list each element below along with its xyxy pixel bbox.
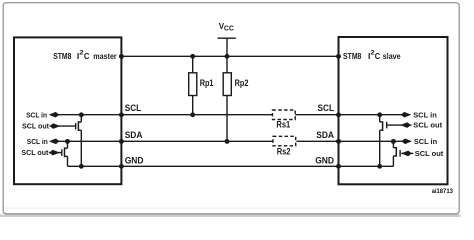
svg-text:C: C bbox=[375, 51, 381, 61]
transistor Q1 bbox=[76, 115, 82, 167]
svg-text:SCL in: SCL in bbox=[414, 137, 438, 146]
wire SCL bus left segment bbox=[56, 114, 272, 116]
svg-text:SCL in: SCL in bbox=[27, 137, 48, 146]
svg-text:slave: slave bbox=[383, 51, 401, 61]
arrow SCL in slave bbox=[401, 112, 412, 118]
wire SCL bus right segment bbox=[295, 114, 403, 116]
node SDA at master edge bbox=[119, 139, 124, 144]
resistor Rs1 (dashed) bbox=[273, 110, 296, 120]
svg-text:master: master bbox=[93, 51, 117, 61]
svg-text:CC: CC bbox=[224, 26, 234, 33]
svg-text:SCL out: SCL out bbox=[413, 121, 442, 130]
node SCL at slave edge bbox=[336, 112, 341, 117]
transistor Q4 bbox=[393, 141, 400, 166]
node VCC / Rp2 top bbox=[225, 54, 230, 59]
svg-text:Rs2: Rs2 bbox=[277, 147, 291, 157]
arrow SCL in master bbox=[49, 112, 60, 118]
node Rp1 bottom on SCL bbox=[190, 112, 195, 117]
svg-text:Rs1: Rs1 bbox=[276, 120, 290, 130]
STM8 I2C slave block U2 bbox=[339, 37, 448, 184]
svg-text:ai18713: ai18713 bbox=[432, 188, 454, 195]
wire SDA bus left segment bbox=[57, 140, 274, 142]
wire VCC stem bbox=[226, 38, 228, 56]
svg-text:GND: GND bbox=[125, 155, 144, 165]
resistor Rs2 (dashed) bbox=[273, 136, 296, 146]
svg-text:SCL out: SCL out bbox=[21, 148, 48, 157]
arrow SCL out 2 slave bbox=[401, 151, 412, 157]
resistor Rp1 bbox=[192, 56, 194, 73]
wire SCL out 2 slave tail bbox=[401, 152, 413, 154]
node Q4 drain on SDA (slave) bbox=[391, 139, 396, 144]
svg-text:SCL: SCL bbox=[318, 103, 335, 113]
node GND at master edge bbox=[119, 164, 124, 169]
supply VCC bar bbox=[217, 37, 235, 39]
node SCL at master edge bbox=[119, 112, 124, 117]
arrow SCL out master bbox=[50, 123, 61, 129]
svg-text:SCL: SCL bbox=[125, 103, 142, 113]
node Rp1 top bbox=[190, 54, 195, 59]
wire gate lead Q1 bbox=[50, 125, 76, 127]
wire top rail master to slave bbox=[121, 55, 338, 57]
transistor Q2 bbox=[62, 141, 68, 166]
wire GND bus bbox=[68, 165, 394, 167]
arrow SCL in 2 slave bbox=[401, 139, 412, 145]
svg-text:C: C bbox=[84, 51, 90, 61]
wire gate lead Q3 bbox=[387, 124, 412, 126]
svg-text:SCL in: SCL in bbox=[26, 110, 47, 119]
node Rp2 bottom on SDA bbox=[225, 139, 230, 144]
wire gate lead Q2 bbox=[49, 152, 62, 154]
node Q3 source on GND bbox=[377, 164, 382, 169]
node Q2 drain on SDA bbox=[65, 139, 70, 144]
node GND at slave edge bbox=[336, 164, 341, 169]
node Q1 drain on SCL bbox=[79, 112, 84, 117]
svg-text:Rp2: Rp2 bbox=[235, 78, 249, 88]
node Q1 source on GND bbox=[79, 164, 84, 169]
arrow SCL out slave bbox=[400, 122, 411, 128]
faint inner rule bbox=[4, 207, 459, 209]
svg-text:SDA: SDA bbox=[316, 130, 334, 140]
node top rail at master edge bbox=[119, 54, 124, 59]
node Q3 drain on SCL (slave) bbox=[377, 112, 382, 117]
svg-text:STM8: STM8 bbox=[343, 51, 362, 61]
svg-text:SCL out: SCL out bbox=[415, 149, 444, 158]
svg-text:Rp1: Rp1 bbox=[200, 78, 214, 88]
svg-text:SCL in: SCL in bbox=[413, 110, 437, 119]
STM8 I2C master block U1 bbox=[14, 37, 121, 184]
svg-text:SCL out: SCL out bbox=[22, 122, 49, 131]
resistor Rp2 bbox=[226, 56, 228, 73]
svg-text:STM8: STM8 bbox=[53, 51, 71, 61]
wire SDA bus right segment bbox=[297, 140, 404, 142]
arrow SCL out 2 master bbox=[49, 150, 60, 156]
transistor Q3 bbox=[380, 115, 387, 167]
node top rail at slave edge bbox=[336, 54, 341, 59]
gray band below frame bbox=[0, 214, 461, 217]
svg-text:GND: GND bbox=[315, 155, 334, 165]
svg-text:SDA: SDA bbox=[125, 130, 143, 140]
node SDA at slave edge bbox=[336, 139, 341, 144]
arrow SCL in 2 master bbox=[49, 139, 60, 145]
